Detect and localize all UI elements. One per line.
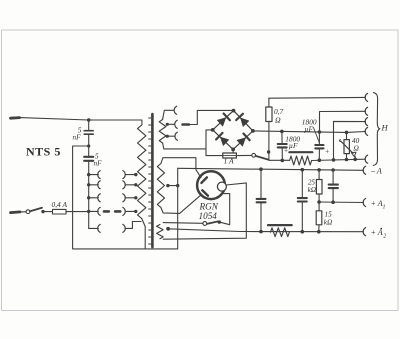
wire +A2 rail [168, 229, 363, 232]
wire R1 top [268, 98, 270, 107]
svg-text:2: 2 [383, 234, 386, 240]
wire bus to pot top [347, 131, 366, 134]
wire heater top lead [163, 110, 174, 119]
wire socket5 lead [125, 227, 132, 229]
socket arc heater 2 [175, 120, 177, 128]
wire primary tap 1 to socket [125, 174, 136, 176]
wire filter midpoint loop [73, 146, 178, 249]
capacitor C2 5nF plates [84, 157, 93, 161]
socket arc selector 4 [98, 207, 100, 215]
wire node to C1 [88, 120, 90, 131]
node filter midpoint [87, 144, 90, 147]
node row5 pot junction [345, 158, 349, 162]
wire C6 bottom lead [301, 202, 303, 232]
wire C3 top lead [281, 131, 283, 144]
fuse F2 1A body [223, 153, 237, 158]
svg-text:1 A: 1 A [224, 156, 235, 165]
tube V1 filament pip [217, 182, 226, 191]
capacitor C1 5nF plates [84, 131, 93, 135]
wire DC bus [253, 131, 347, 133]
wire selector lead 4 [89, 210, 99, 212]
wire row3 [334, 121, 366, 159]
diode D1 cathode bar [224, 114, 230, 121]
wire C2 down selector column [88, 161, 90, 229]
switch S1 lever [30, 208, 42, 211]
svg-text:+: + [325, 147, 330, 155]
diode D3 cathode bar [216, 133, 222, 140]
capacitor C6 plates [298, 198, 307, 201]
wire tube filament B to switch riser [221, 194, 230, 225]
node selector column tap 2 [87, 183, 90, 186]
transformer primary winding [138, 125, 146, 219]
switch S2 pivot circle [252, 153, 256, 157]
rheostat R2 arrowhead [351, 152, 356, 156]
node +A2 C6 bottom [301, 230, 305, 234]
diode D2 cathode bar [236, 114, 243, 120]
node bus pot top [345, 131, 349, 135]
svg-text:– A: – A [370, 166, 382, 175]
svg-text:+ A: + A [371, 228, 383, 237]
diode D4 (bottom-right arm) [237, 138, 245, 146]
wire anode winding top lead [161, 158, 201, 178]
node +A1 R3 junction [317, 200, 321, 204]
node -A C6 top [301, 168, 305, 172]
tube V1 anode 2 stub [202, 190, 208, 195]
socket arc selector 3 [98, 194, 100, 202]
output socket H5 [365, 155, 367, 163]
node switch S1 output [41, 210, 44, 213]
node bridge left [211, 128, 215, 132]
diode D4 cathode bar [243, 134, 249, 141]
transformer anode winding [157, 164, 164, 208]
transformer heater winding [159, 120, 166, 144]
socket arc primary bottom [123, 224, 125, 232]
socket arc heater 3 [175, 132, 177, 140]
node primary tap 3 [134, 196, 137, 199]
switch S3 lever [207, 221, 218, 224]
svg-text:Ω: Ω [354, 143, 360, 152]
wire primary tap 2 to socket [125, 184, 136, 186]
node anode winding center tap [166, 184, 169, 187]
node -A C7 top [331, 168, 335, 172]
svg-text:Ω: Ω [275, 116, 281, 125]
node bridge right [251, 129, 255, 133]
capacitor C7 plates [329, 185, 338, 189]
svg-text:nF: nF [73, 134, 82, 142]
wire tube pip to riser [163, 183, 246, 239]
socket arc primary tap 2 [123, 181, 125, 189]
switch S2 lever [256, 156, 269, 160]
wire R3 top lead [318, 170, 320, 180]
wire midnode to C2 [88, 146, 90, 157]
switch S1 pivot circle [26, 210, 30, 214]
wire mains top to node [20, 118, 89, 120]
output socket +A2 [363, 228, 365, 236]
choke L2 winding [270, 228, 289, 237]
node selector column tap 3 [87, 196, 90, 199]
svg-text:15: 15 [325, 211, 333, 219]
wire R4 bottom lead [318, 225, 320, 232]
node selector column tap 1 [87, 173, 90, 176]
node row5 wiper junction [353, 158, 357, 162]
svg-text:1: 1 [383, 204, 386, 210]
resistor R4 15k body [316, 211, 322, 225]
brace for H outputs [373, 93, 379, 166]
capacitor C4 1800uF plates [315, 145, 323, 148]
wire selector lead 2 [89, 184, 99, 186]
mains input terminal bottom (thick stub) [11, 210, 21, 214]
wire R2 bottom lead [346, 154, 348, 160]
socket arc selector 5 [98, 224, 100, 232]
node -A C5 top [259, 167, 263, 171]
diode D2 (right-top arm) [241, 118, 249, 126]
wire anode winding bottom lead [161, 194, 202, 213]
svg-text:NTS 5: NTS 5 [26, 145, 61, 159]
capacitor C3 1800uF plates [278, 144, 287, 147]
svg-text:µF: µF [289, 141, 298, 150]
fuse F2 internal wire [223, 155, 237, 157]
wire bridge left to fuse [206, 130, 223, 156]
wire heater tap 2 lead [167, 123, 174, 125]
wire heater bottom lead [163, 143, 206, 149]
wire fuse to switch S2 [236, 154, 251, 156]
tube V1 envelope [197, 171, 225, 199]
node bus C3 top [280, 130, 284, 134]
socket arc primary tap 1 [123, 171, 125, 179]
node C3 bottom junction [281, 159, 285, 163]
node filament winding center tap [166, 227, 170, 231]
wire +A1 rail [319, 201, 363, 204]
node primary tap 4 [134, 210, 137, 213]
socket arc heater 1 [174, 106, 176, 114]
choke L1 core bar [289, 151, 312, 153]
wire switch to fuse [43, 211, 53, 213]
node heater tap 3 [166, 135, 169, 138]
rheostat R2 body [344, 140, 349, 154]
choke L2 core bar [268, 224, 292, 226]
wire C7 bottom lead [332, 188, 334, 202]
wire selector lead 1 [89, 174, 99, 176]
output socket H2 [365, 107, 367, 115]
svg-text:µF: µF [304, 125, 313, 134]
wire primary tap 4 to socket [125, 210, 136, 212]
capacitor C5 plates [257, 199, 266, 202]
node +A1 C7 junction [331, 200, 335, 204]
svg-text:kΩ: kΩ [308, 186, 316, 194]
node row5 cap junction [318, 158, 322, 162]
bridge diamond wiring [213, 111, 253, 150]
wire selector bottom lead [89, 227, 99, 229]
wire choke to row5 [312, 159, 366, 160]
tube V1 anode 1 stub [201, 177, 207, 183]
wire to primary top [89, 120, 142, 125]
wire plug to bridge top [189, 110, 234, 124]
wire heater tap 3 lead [167, 135, 174, 137]
node heater tap 2 [166, 123, 169, 126]
wire C4 top lead [318, 132, 320, 145]
socket arc selector 1 [98, 171, 100, 179]
node -A riser junction [176, 184, 179, 187]
switch S3 pivot circle [203, 222, 207, 226]
wire C5 bottom lead [260, 202, 262, 231]
svg-text:nF: nF [94, 160, 103, 168]
node +A2 C5 bottom [259, 230, 263, 234]
node +A2 R4 bottom [317, 230, 321, 234]
socket arc selector 2 [98, 181, 100, 189]
svg-text:RGN: RGN [199, 202, 219, 212]
socket arc primary tap 4 [123, 207, 125, 215]
wire R2 top lead [346, 132, 348, 139]
wire row2 [320, 111, 366, 132]
leader line C4 label [314, 128, 320, 143]
output socket +A1 [363, 199, 365, 207]
fuse F1 0.4A body [53, 209, 67, 214]
svg-text:+ A: + A [371, 199, 383, 208]
wire primary bottom lead [142, 219, 146, 249]
wire switch S3 to winding top [163, 222, 203, 225]
svg-text:1054: 1054 [199, 211, 218, 221]
wire R1 bottom [268, 122, 270, 161]
wire -A rail [178, 168, 364, 170]
node row5 col2 junction [332, 158, 336, 162]
node bridge top [232, 109, 236, 113]
wire C7 top lead [332, 170, 334, 185]
node -A R3 top [317, 168, 321, 172]
diode D1 (left-top arm) [217, 118, 225, 126]
svg-text:kΩ: kΩ [324, 218, 332, 226]
output socket H4 [365, 127, 367, 135]
wire stub to switch [20, 211, 26, 213]
wire bridge bottom stub [232, 149, 234, 153]
resistor R1 0.7ohm body [266, 107, 272, 122]
output socket H3 [365, 118, 367, 126]
transformer core lamination ticks [149, 118, 151, 244]
svg-text:0,4 A: 0,4 A [52, 200, 68, 209]
rheostat R2 wiper arrow [340, 140, 353, 154]
wire primary tap 3 to socket [125, 197, 136, 199]
wire center tap to -A riser [168, 185, 178, 187]
wire C3 bottom lead [281, 147, 283, 160]
resistor R3 25k body [316, 180, 322, 195]
node R1 bottom dot [267, 150, 270, 153]
choke L1 winding [290, 156, 312, 165]
diode D3 (bottom-left arm) [221, 137, 229, 145]
wire C5 top lead [260, 169, 262, 199]
node primary tap 1 [134, 173, 137, 176]
wire C1 to midnode [88, 134, 90, 146]
wire primary bottom to socket 5 [132, 222, 141, 229]
node switch S3 contact [218, 220, 221, 223]
node bridge bottom [231, 148, 235, 152]
transformer core bar [151, 114, 154, 247]
voltage selector plug (dashes) [104, 210, 120, 213]
wire R3 bottom lead [318, 194, 320, 211]
output socket H1 [365, 93, 367, 101]
fuse F1 wire through [66, 211, 89, 213]
transformer filament winding [157, 225, 164, 239]
wire C4 bottom lead [318, 148, 320, 160]
node primary tap 2 [134, 183, 137, 186]
socket arc primary tap 3 [123, 194, 125, 202]
mains input terminal top (thick stub) [11, 116, 20, 119]
node selector column tap 4 [87, 210, 90, 213]
node bus C4 top [318, 130, 322, 134]
output socket -A [363, 166, 365, 174]
wire C6 top lead [301, 170, 303, 198]
svg-text:H: H [381, 122, 389, 132]
wire switch junction to choke [269, 159, 290, 161]
wire row1 H+ [269, 96, 366, 99]
wire selector lead 3 [89, 197, 99, 199]
node mains-top junction [87, 118, 91, 122]
wire wiper to row5 [354, 157, 356, 160]
plug heater tap (dash) [183, 123, 189, 126]
